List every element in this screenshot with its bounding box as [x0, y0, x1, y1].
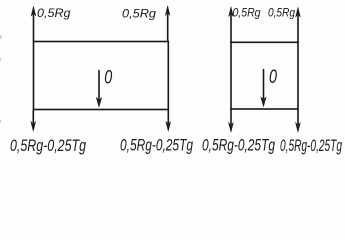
- label 0 center (left beam): [104, 68, 112, 89]
- label 0,5Rg top-left (left beam): [37, 6, 71, 20]
- svg-text:0,5Rg-0,25Tg: 0,5Rg-0,25Tg: [120, 137, 193, 155]
- svg-text:0,5Rg: 0,5Rg: [268, 6, 295, 20]
- center force arrow down (right beam): [261, 70, 266, 107]
- force arrow down bottom-left (right beam): [229, 109, 234, 132]
- svg-text:0: 0: [104, 68, 112, 89]
- force arrow up top-right (right beam): [296, 8, 301, 43]
- label 0,5Rg top-right (left beam): [122, 7, 156, 21]
- svg-text:0,5Rg-0,25Tg: 0,5Rg-0,25Tg: [280, 137, 342, 155]
- label 0,5Rg top-right (right beam): [268, 6, 295, 20]
- label 0 center (right beam): [269, 67, 277, 88]
- force arrow down bottom-right (right beam): [296, 109, 301, 132]
- center force arrow down (left beam): [96, 71, 101, 108]
- force arrow up top-right (left beam): [165, 6, 170, 42]
- svg-text:0,5Rg-0,25Tg: 0,5Rg-0,25Tg: [10, 137, 86, 155]
- svg-text:0,5Rg-0,25Tg: 0,5Rg-0,25Tg: [202, 137, 275, 155]
- force arrow up top-left (left beam): [31, 7, 36, 42]
- svg-text:0,5Rg: 0,5Rg: [37, 6, 71, 20]
- force arrow down bottom-right (left beam): [166, 110, 171, 132]
- svg-text:0,5Rg: 0,5Rg: [233, 6, 261, 20]
- force arrow down bottom-left (left beam): [31, 110, 36, 132]
- label 0,5Rg-0,25Tg bottom-right (left beam): [120, 137, 193, 155]
- beam outline left: [34, 42, 169, 110]
- label 0,5Rg-0,25Tg bottom-right (right beam): [280, 137, 342, 155]
- svg-text:0,5Rg: 0,5Rg: [122, 7, 156, 21]
- force arrow up top-left (right beam): [229, 7, 234, 42]
- beam outline right: [231, 42, 298, 109]
- label 0,5Rg-0,25Tg bottom-left (right beam): [202, 137, 275, 155]
- label 0,5Rg-0,25Tg bottom-left (left beam): [10, 137, 86, 155]
- label 0,5Rg top-left (right beam): [233, 6, 261, 20]
- svg-text:0: 0: [269, 67, 277, 88]
